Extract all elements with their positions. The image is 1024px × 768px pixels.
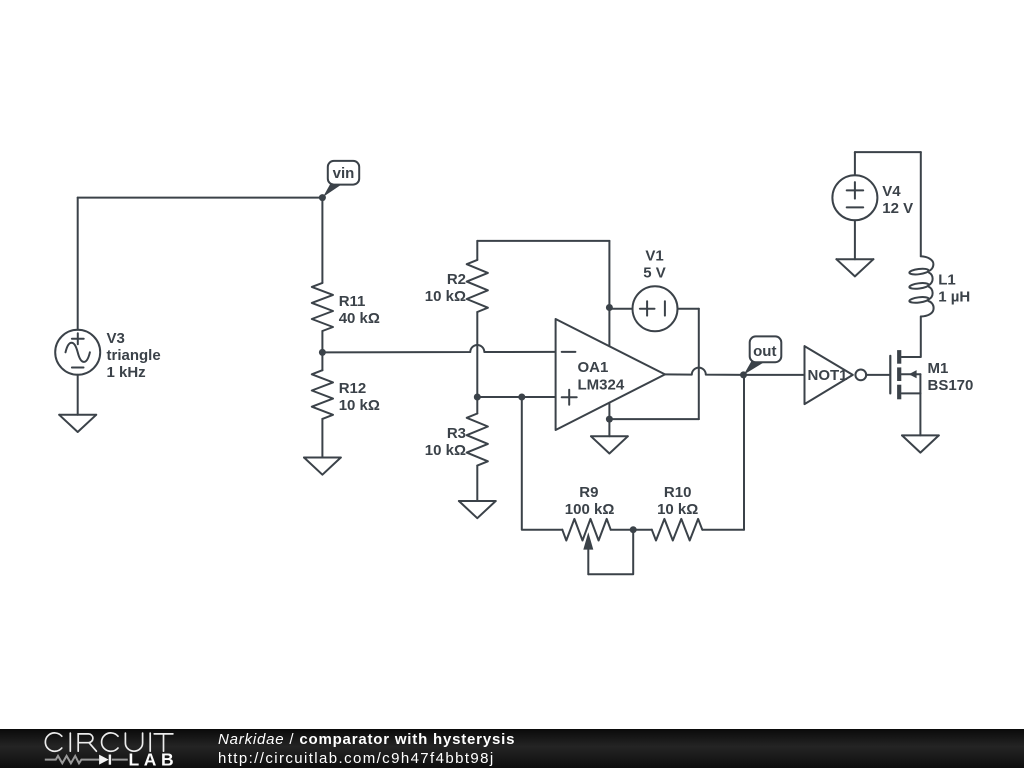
node plus divider junction <box>474 394 481 401</box>
node out junction dot <box>740 371 747 378</box>
svg-text:10 kΩ: 10 kΩ <box>339 397 380 414</box>
wire top rail to R2 <box>476 241 478 260</box>
wire V3 bottom to ground <box>77 375 79 415</box>
svg-text:10 kΩ: 10 kΩ <box>425 288 466 305</box>
wire R3 to ground <box>476 466 478 501</box>
wire V1 return horizontal <box>609 418 698 420</box>
resistor R2 <box>425 260 488 312</box>
ground below V3 <box>59 415 96 432</box>
svg-text:12 V: 12 V <box>882 200 913 217</box>
svg-text:vin: vin <box>333 165 355 182</box>
CircuitLab logo CIRCUIT letters <box>45 733 173 751</box>
logo squiggle resistor and diode <box>45 756 128 763</box>
svg-text:triangle: triangle <box>107 347 161 364</box>
wire vin vertical to R11 <box>321 198 323 283</box>
wire node to R12 <box>321 352 323 370</box>
node V1 minus junction <box>606 416 613 423</box>
transistor M1 <box>890 350 973 399</box>
voltage source V1 <box>633 248 678 332</box>
wire M1 drain up to L1 <box>920 317 922 358</box>
wire plus node to opamp plus <box>477 396 555 398</box>
op-amp OA1 <box>556 319 665 430</box>
wire vin horizontal from V3 to divider <box>78 197 323 199</box>
wire V1 return vertical <box>698 309 700 419</box>
ground below op-amp <box>591 436 628 453</box>
voltage source V4 <box>832 175 913 220</box>
svg-text:1 kHz: 1 kHz <box>107 364 146 381</box>
resistor R10 <box>652 484 703 541</box>
svg-text:LAB: LAB <box>129 749 179 768</box>
svg-text:40 kΩ: 40 kΩ <box>339 310 380 327</box>
svg-text:LM324: LM324 <box>578 376 625 393</box>
svg-text:R3: R3 <box>447 425 466 442</box>
potentiometer R9 <box>562 484 614 574</box>
svg-text:OA1: OA1 <box>578 359 609 376</box>
svg-text:V4: V4 <box>882 183 901 200</box>
resistor R3 <box>425 414 488 466</box>
node vin junction dot <box>319 194 326 201</box>
svg-text:10 kΩ: 10 kΩ <box>425 442 466 459</box>
resistor R12 <box>312 370 380 419</box>
wire M1 source to ground <box>919 393 921 435</box>
svg-text:V1: V1 <box>645 248 663 265</box>
wire opamp V- pin to ground <box>608 403 610 437</box>
ground below V4 <box>836 259 873 276</box>
svg-text:10 kΩ: 10 kΩ <box>657 501 698 518</box>
inductor L1 <box>909 256 970 316</box>
wire R11 to node <box>321 331 323 352</box>
node V1 plus junction <box>606 304 613 311</box>
svg-text:Narkidae / comparator with hys: Narkidae / comparator with hysterysis <box>218 731 515 748</box>
wire rail down to L1 <box>920 152 922 256</box>
wire V4 top rail <box>855 151 921 153</box>
node label out <box>744 336 782 374</box>
svg-text:NOT1: NOT1 <box>808 367 848 384</box>
wire R9 to R10 <box>611 529 652 531</box>
svg-text:L1: L1 <box>938 272 956 289</box>
svg-text:5 V: 5 V <box>643 265 666 282</box>
svg-text:R10: R10 <box>664 484 692 501</box>
node label vin <box>323 161 359 197</box>
wire out node down to R10 <box>743 375 745 530</box>
wire V4 bottom to ground <box>854 220 856 259</box>
wire V1 right lead <box>678 308 699 310</box>
wire V1 left lead <box>609 308 632 310</box>
wire NOT1 to gate <box>866 374 889 376</box>
node feedback tap junction <box>518 394 525 401</box>
svg-text:out: out <box>753 343 776 360</box>
svg-text:R12: R12 <box>339 380 367 397</box>
svg-text:BS170: BS170 <box>928 377 974 394</box>
wire out to NOT1 <box>744 374 805 376</box>
wire R10 to out vertical <box>702 529 744 531</box>
wire R9 wiper loop <box>588 530 633 575</box>
svg-text:100 kΩ: 100 kΩ <box>565 501 615 518</box>
svg-text:http://circuitlab.com/c9h47f4b: http://circuitlab.com/c9h47f4bbt98j <box>218 750 495 767</box>
ground below R12 <box>304 458 341 475</box>
wire opamp V+ pin <box>608 241 610 346</box>
wire node to opamp minus with hop <box>322 345 555 352</box>
resistor R11 <box>312 283 380 331</box>
svg-text:M1: M1 <box>928 360 949 377</box>
svg-text:R2: R2 <box>447 271 466 288</box>
wire R2 to plus node <box>476 312 478 397</box>
wire opamp output with hop <box>665 368 744 375</box>
node wiper junction <box>630 526 637 533</box>
svg-text:1 µH: 1 µH <box>938 289 970 306</box>
logo diode symbol <box>99 755 110 765</box>
footer bar <box>0 729 1024 768</box>
wire R3 top <box>476 397 478 414</box>
wire feedback tap down to R9 <box>522 397 563 530</box>
wire V3 top <box>77 198 79 330</box>
svg-text:R9: R9 <box>579 484 598 501</box>
wire top rail <box>477 240 609 242</box>
ground below M1 <box>902 435 939 452</box>
inverter NOT1 <box>805 346 867 404</box>
svg-text:R11: R11 <box>339 293 366 310</box>
ground below R3 <box>459 501 496 518</box>
voltage source V3 <box>55 330 160 381</box>
svg-text:V3: V3 <box>107 330 125 347</box>
node R11/R12 junction <box>319 349 326 356</box>
wire R12 to ground <box>321 419 323 458</box>
wire V4 top lead <box>854 152 856 175</box>
